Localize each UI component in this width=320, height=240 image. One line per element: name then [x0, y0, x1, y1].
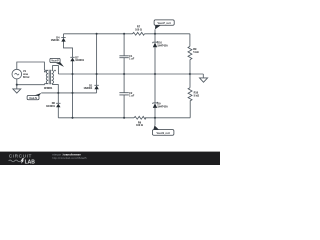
- svg-text:100 Ω: 100 Ω: [136, 124, 143, 127]
- svg-text:1N4001: 1N4001: [51, 39, 60, 42]
- svg-text:1N4742A: 1N4742A: [157, 105, 168, 108]
- svg-text:Vout-N: Vout-N: [29, 97, 37, 100]
- svg-text:Vout-N_rect: Vout-N_rect: [157, 132, 171, 135]
- svg-text:5 kΩ: 5 kΩ: [194, 95, 199, 98]
- svg-text:XFMR1: XFMR1: [44, 87, 53, 90]
- svg-text:http://circuitlab.com/95da25: http://circuitlab.com/95da25: [52, 156, 87, 160]
- svg-text:5 kΩ: 5 kΩ: [193, 51, 198, 54]
- svg-text:60 Hz: 60 Hz: [23, 76, 30, 79]
- svg-text:1N4001: 1N4001: [84, 87, 93, 90]
- svg-text:1N4001: 1N4001: [46, 105, 55, 108]
- svg-text:Vout-P_rect: Vout-P_rect: [157, 22, 170, 25]
- svg-text:1 uF: 1 uF: [129, 94, 135, 97]
- svg-text:LAB: LAB: [25, 159, 36, 165]
- svg-text:1N4001: 1N4001: [75, 59, 84, 62]
- svg-text:Vout-P: Vout-P: [51, 60, 59, 63]
- svg-text:100 Ω: 100 Ω: [135, 28, 142, 31]
- svg-text:1 uF: 1 uF: [129, 58, 135, 61]
- svg-text:1N4742A: 1N4742A: [157, 44, 168, 47]
